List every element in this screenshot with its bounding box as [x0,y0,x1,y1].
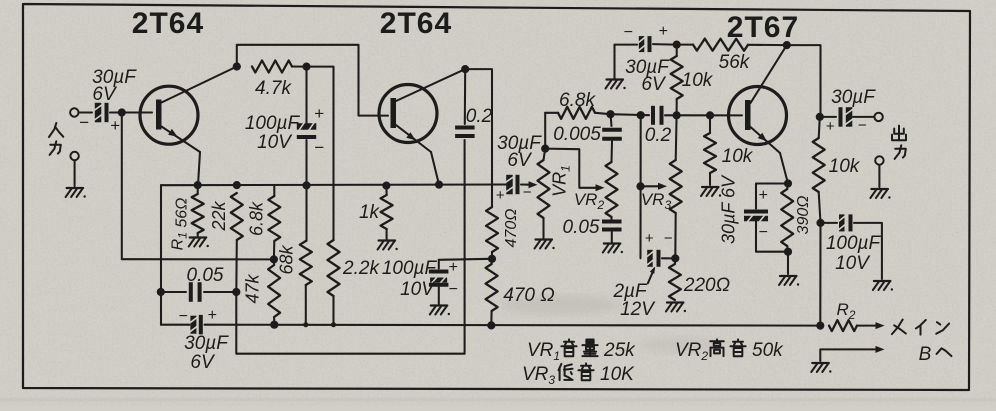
node 4.7k right [302,63,310,71]
svg-text:6V: 6V [92,84,118,105]
B line with ground [811,346,884,373]
resistor R2 [829,320,857,331]
label 10k (bias upper) [682,70,714,91]
bias rail (y185) [161,183,508,186]
capacitor 30uF (output) electrolytic [820,107,874,135]
svg-text:0.05: 0.05 [187,265,224,286]
svg-text:−: − [178,308,187,325]
label 0.05 (mid) [563,217,600,238]
node collector Q2 [461,65,469,73]
label VR3 [641,190,672,212]
svg-text:6V: 6V [641,74,667,95]
transistor Q1 2T64 [140,67,237,186]
wire 100uF2 top link [439,259,492,260]
label 30uF (input cap) [92,67,137,88]
capacitor 30uF 6V (stage1 bypass) [178,307,216,334]
svg-text:6V: 6V [507,150,533,171]
svg-text:−: − [314,138,324,157]
svg-text:56k: 56k [719,52,751,73]
label R1 56ohm [170,198,191,251]
resistor 10k (stage3 bias upper) [671,45,683,116]
caption VR2 treble 50k [675,339,784,363]
transistor label 2T64 (Q1) [132,7,204,40]
transistor Q3 2T67 [729,45,789,183]
wire left vertical x161 [160,185,162,325]
label 10V (C2) [257,132,293,153]
label 0.005 [553,124,601,145]
node 1k top [382,182,390,190]
resistor 6.8k (bias) [268,185,280,259]
node 0.2/10k/VR3 [673,111,681,119]
svg-text:6.8k: 6.8k [559,90,596,111]
svg-text:0.2: 0.2 [645,125,672,146]
label 10k (bias lower) [722,146,754,167]
label 4.7k [255,78,292,99]
label 0.2 (stage2) [466,106,493,127]
resistor 56k [677,39,787,51]
capacitor 0.05 (below VR2) [602,217,622,242]
wire input to C1 [79,111,93,113]
capacitor 0.2 (stage3 coupling) [653,106,674,125]
resistor 220ohm [669,258,681,300]
svg-text:+: + [496,187,505,204]
resistor 10k (stage3 bias lower) [704,115,716,185]
output terminal (gnd) and ground [870,156,890,198]
svg-text:10V: 10V [400,279,436,300]
input label (nyuryoku) [49,123,63,155]
label 47k [243,273,263,303]
node 470ohm bottom [487,321,495,329]
wire output junction down [819,223,821,326]
potentiometer VR2 [606,162,618,217]
wire base network to VR3 feed [611,114,650,115]
svg-text:100µF: 100µF [382,258,438,279]
svg-text:+: + [207,307,216,324]
svg-text:2T64: 2T64 [132,7,204,40]
VR3 wiper arrow [641,183,668,190]
wire base Q3 [677,114,742,116]
label 390ohm [795,196,812,235]
output label (shutsuryoku) [892,126,906,159]
svg-text:4.7k: 4.7k [255,78,292,99]
svg-text:25k: 25k [603,340,636,361]
node 68k bottom [303,322,308,327]
label 10V (output) [835,253,871,274]
VR1 wiper arrow [521,181,538,188]
potentiometer VR1 [538,149,550,238]
svg-text:0.005: 0.005 [553,124,601,145]
ground 100uF output [873,281,893,291]
svg-text:0.2: 0.2 [466,106,493,127]
svg-text:−: − [858,117,867,134]
ground 100uF (stage2) [430,306,450,316]
wire collector Q2 to 470ohm [465,69,492,207]
node 100uF bottom / 68k top [302,181,310,189]
label 6V (coupling) [507,150,533,171]
node emitter Q1 / R1 top [194,181,202,189]
label 1k [359,202,381,223]
node collector Q1 [233,62,241,70]
transistor label 2T64 (Q2) [380,7,452,40]
svg-text:47k: 47k [243,273,263,303]
ground 10k lower [701,187,721,197]
svg-text:+: + [448,259,457,276]
label VR1 [550,165,573,197]
resistor R1 56ohm [192,185,204,236]
ground R1 [189,238,209,248]
resistor 68k [300,185,312,324]
label 470ohm upper [503,209,520,248]
node 47k bottom [270,321,278,329]
svg-text:+: + [645,230,654,247]
ground 390ohm [779,276,799,286]
svg-text:470Ω: 470Ω [503,209,520,248]
transistor label 2T67 [727,11,799,44]
resistor 470ohm lower [486,259,498,326]
svg-text:68k: 68k [277,244,297,274]
node VR3 wiper [636,182,644,190]
node collector Q3 [783,41,791,49]
svg-text:+: + [110,116,120,135]
svg-text:100µF: 100µF [245,113,301,134]
capacitor 0.005 [602,114,622,162]
capacitor 100uF 10V (stage2) [429,259,458,304]
svg-text:12V: 12V [620,299,656,320]
node VR3 bottom / 220ohm [671,254,679,262]
label 100uF (stage2) [382,258,438,279]
svg-text:10V: 10V [835,253,871,274]
label 2.2k [342,258,380,279]
capacitor 30uF 6V (emitter Q3) electrolytic [744,184,788,252]
node 56k left [673,41,681,49]
label 30uF (stage1 bypass) [184,333,229,354]
node output cap tap [816,113,824,121]
svg-text:10k: 10k [829,156,861,177]
ground-return wire (0.05 to 0.2 bottom) [236,140,464,354]
svg-text:6V: 6V [190,352,216,373]
wire 4.7k right [292,65,307,67]
node 390ohm bottom [784,248,792,256]
node emitter Q3 [784,179,792,187]
resistor 390ohm [781,184,793,252]
svg-text:−: − [664,230,673,247]
node 2.2k bottom [331,322,336,327]
label 6.8k (bias) [247,201,267,236]
svg-text:22k: 22k [209,200,229,231]
svg-text:B: B [919,344,932,365]
ground 220ohm [666,303,686,313]
wire to 2.2k top [307,67,334,240]
svg-text:10k: 10k [722,146,754,167]
capacitor 30uF 6V (coupling to VR1) [496,175,532,204]
ground VR1 [535,240,555,250]
node VR1 top [541,145,549,153]
svg-text:50k: 50k [752,340,784,361]
wire base Q1 down-left branch [122,113,274,260]
resistor 10k (output) [813,117,825,223]
label 0.05 (stage1) [187,265,224,286]
resistor 47k [268,259,280,324]
svg-text:+: + [758,187,767,204]
caption VR1 volume 25k [527,339,636,363]
svg-text:2T64: 2T64 [380,7,452,40]
capacitor 0.2 (stage2 collector) [455,69,475,136]
svg-text:100µF: 100µF [826,233,882,254]
label VR2 [574,190,605,212]
capacitor 30uF 6V (stage3 top) with ground [606,23,676,89]
label 30uF (coupling) [497,133,542,154]
svg-text:+: + [658,23,667,40]
capacitor 0.05 (stage1) [161,282,237,302]
rail2 (y325) [161,324,820,327]
node 0.05 left [157,288,165,296]
label 10V (stage2) [400,279,436,300]
wire VR3 feed down [639,115,641,258]
svg-text:0.05: 0.05 [563,217,600,238]
label 30uF 6V (emitter Q3) [719,174,739,244]
wire collector Q3 right [787,45,821,117]
resistor 2.2k [328,240,340,325]
label 30uF (output) [831,87,876,108]
label 56k [719,52,751,73]
node base Q1 [118,108,126,116]
resistor 4.7k [252,61,292,73]
label 100uF (C2) [245,113,301,134]
label 22k [209,200,229,231]
capacitor 100uF 10V (output) [821,214,882,279]
wire to ground 390 [787,252,789,274]
svg-text:10k: 10k [682,70,714,91]
svg-text:10V: 10V [257,132,293,153]
resistor 22k [231,193,243,292]
label 0.2 (stage3) [645,125,672,146]
label 30uF (stage3 top) [625,57,670,78]
node between 470ohms [488,255,496,263]
svg-text:470 Ω: 470 Ω [503,285,554,306]
svg-text:390Ω: 390Ω [795,196,812,235]
svg-text:+: + [826,118,835,135]
input terminal (gnd) and ground [66,152,86,198]
svg-text:6.8k: 6.8k [247,201,267,236]
svg-text:−: − [79,113,89,132]
svg-text:30µF 6V: 30µF 6V [719,174,739,244]
node 6.8k/47k junction [270,255,278,263]
resistor 6.8k (mid) [545,107,610,149]
label 6.8k (mid) [559,90,596,111]
caption VR3 bass 10K [522,363,635,387]
transistor Q2 2T64 [379,69,465,185]
label 2uF [612,267,655,303]
svg-text:−: − [758,224,767,241]
node 0.005 top [606,110,614,118]
output terminal (hot) [874,113,882,121]
potentiometer VR3 [670,115,682,258]
node 22k top [233,181,241,189]
svg-text:2.2k: 2.2k [342,258,380,279]
main label (mein) [892,320,949,335]
capacitor C_in 30uF 6V electrolytic [79,103,152,135]
node 0.05 right [232,288,240,296]
capacitor C2 100uF 10V electrolytic [297,67,324,186]
node 10k lower top [706,111,714,119]
resistor 470ohm upper [486,207,498,259]
svg-text:10K: 10K [600,364,635,385]
label 470ohm lower [503,285,554,306]
svg-text:+: + [314,104,324,123]
svg-text:30µF: 30µF [184,333,229,354]
svg-text:−: − [448,281,457,298]
input terminal (hot) [70,108,78,116]
svg-text:30µF: 30µF [831,87,876,108]
node emitter Q2 [435,181,443,189]
svg-text:220Ω: 220Ω [683,275,730,296]
label 6V (input cap) [92,84,118,105]
node rail R2 [816,322,824,330]
label 10k (output) [829,156,861,177]
label 220ohm [683,275,730,296]
resistor 1k [381,186,393,239]
label 68k [277,244,297,274]
svg-text:1k: 1k [359,202,381,223]
wire collector Q1 up [237,45,388,116]
ground 1k [378,241,398,251]
node 100uF output junction [816,219,824,227]
arrow to main [857,322,885,329]
label 6V (stage3 top) [641,74,667,95]
B-he label [919,344,952,365]
svg-text:−: − [623,24,632,41]
label 12V [620,299,656,320]
node VR3 feed top [637,111,645,119]
capacitor 2uF 12V electrolytic [645,230,676,267]
ground 0.05 (mid) [603,244,623,254]
label 100uF (output) [826,233,882,254]
label 6V (stage1 bypass) [190,352,216,373]
label R2 [837,300,856,322]
VR2 wiper wire+arrow [545,149,604,192]
